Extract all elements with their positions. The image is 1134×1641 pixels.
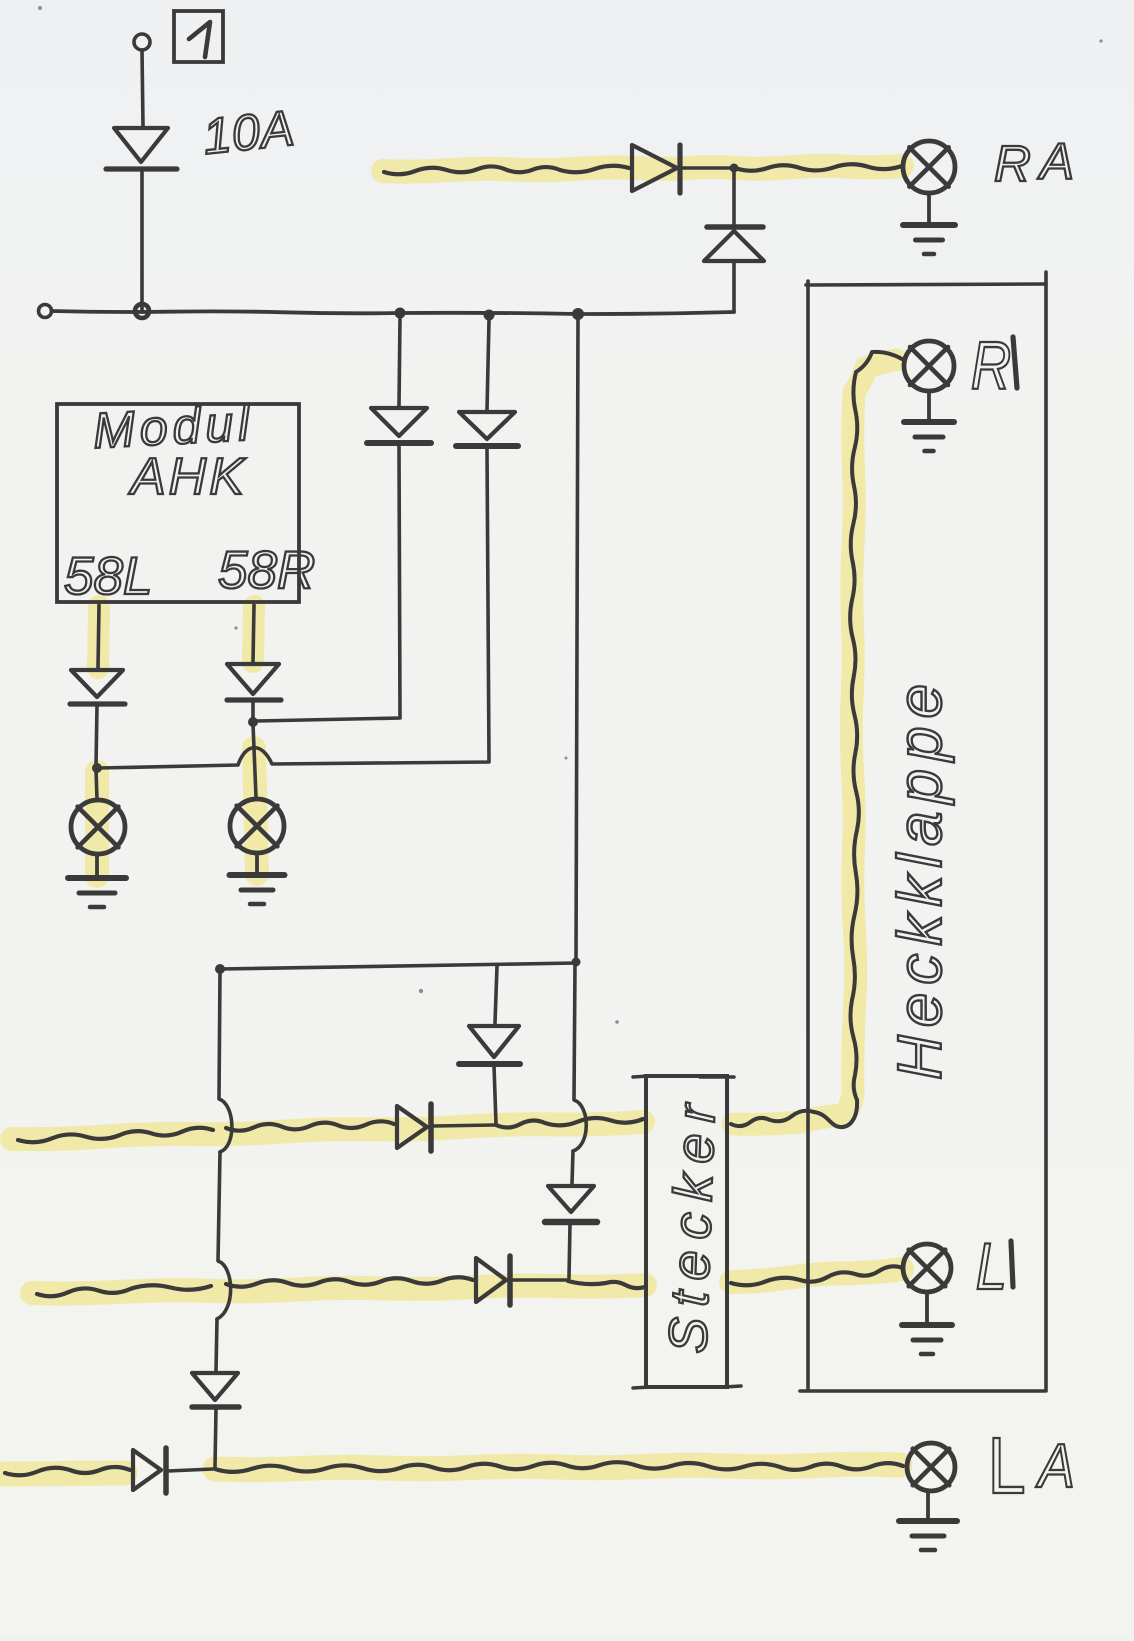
svg-text:10A: 10A	[200, 100, 297, 165]
lamp 58L	[71, 800, 125, 854]
svg-text:A: A	[1036, 1432, 1075, 1501]
svg-text:L: L	[988, 1421, 1026, 1510]
wire D9 to bottom harness	[215, 1409, 216, 1467]
ground below lamp R1	[927, 391, 931, 420]
box Modul AHK	[57, 404, 299, 602]
wire right chain hop over harness 1	[573, 964, 586, 1151]
node junction bus x400	[395, 308, 406, 319]
wire bus to diode D4	[487, 320, 489, 410]
diode D11 pointing down	[548, 1186, 594, 1212]
ground below lamp L1	[925, 1292, 929, 1323]
node junction bus x489	[484, 310, 495, 321]
ground below lamp LA	[926, 1491, 930, 1519]
diode D1 pointing right	[632, 145, 677, 191]
lamp R1	[904, 341, 954, 391]
diode D4 pointing down	[459, 412, 515, 439]
lamp RA	[903, 141, 955, 193]
diode D2 pointing up	[704, 231, 764, 261]
diode D9 pointing down	[192, 1373, 238, 1400]
lamp LA	[907, 1443, 955, 1491]
terminal node 1 (open circle)	[134, 34, 150, 50]
fuse diode F1 10A	[114, 128, 168, 162]
wire D2 to top node	[732, 170, 736, 226]
svg-text:Heckklappe: Heckklappe	[886, 676, 955, 1080]
svg-text:L: L	[976, 1230, 1007, 1303]
wire left chain mid with hop over harness 2	[217, 1152, 231, 1319]
svg-text:58R: 58R	[218, 541, 315, 600]
wire drop to diode D7	[495, 966, 497, 1023]
wire D11 to harness 2	[569, 1224, 570, 1278]
wire harness 2 to Stecker	[568, 1281, 645, 1288]
node junction mid rail right	[572, 958, 581, 967]
node junction bus x578	[572, 308, 584, 320]
bus wire horizontal	[52, 311, 734, 314]
diode D6 pointing down	[227, 664, 279, 694]
wire harness 3 long wavy to lamp LA	[215, 1462, 903, 1472]
wire 58R node down to lamp	[253, 724, 256, 797]
box Stecker	[646, 1076, 727, 1387]
wire from fuse to bus	[140, 170, 144, 311]
wire wavy from bus area to diode D1	[384, 166, 629, 175]
svg-text:R: R	[971, 329, 1011, 404]
paper specks	[38, 6, 1103, 1024]
wire D3 down and left to 58R node	[256, 446, 400, 721]
wire harness 2 left wavy	[37, 1285, 211, 1296]
wire D10 to junction	[512, 1278, 567, 1282]
wire D6 to node	[251, 702, 255, 720]
node junction 58L	[92, 763, 102, 773]
wire D1 to node	[682, 166, 732, 170]
ground below lamp 58L	[95, 855, 99, 876]
diode D7 pointing down	[469, 1026, 519, 1057]
svg-text:58L: 58L	[64, 547, 152, 606]
wire harness 2 mid wavy	[226, 1277, 473, 1286]
ground below lamp RA	[927, 193, 931, 223]
node bus left terminal (open circle)	[39, 305, 52, 318]
wire harness 3 left wavy	[5, 1467, 130, 1475]
svg-text:Stecker: Stecker	[658, 1092, 727, 1354]
diode D12 pointing right	[133, 1450, 161, 1490]
wire D4 down and left with hop to 58L node	[99, 449, 489, 768]
wire right chain to diode D11	[572, 1151, 573, 1184]
svg-text:R: R	[994, 135, 1031, 192]
wire mid rail horizontal	[220, 963, 576, 969]
wire 58L node down to lamp	[96, 770, 97, 799]
lamp L1	[903, 1244, 951, 1292]
diode D10 pointing right	[476, 1258, 506, 1302]
wire 58L pin to diode D5	[98, 605, 99, 668]
wire from terminal 1 to fuse	[142, 50, 143, 126]
wire bus to diode D3	[399, 318, 400, 406]
wire D7 to wavy line	[494, 1066, 496, 1124]
node junction mid rail left	[215, 964, 225, 974]
wire bus x578 down	[576, 319, 578, 961]
wire bus corner up to diode D2	[732, 263, 736, 312]
wire harness 1 left wavy	[18, 1128, 213, 1142]
diode D3 pointing down	[371, 408, 427, 436]
node junction at fuse drop	[135, 304, 149, 318]
wire harness 1 to Stecker	[496, 1118, 643, 1128]
wire wavy from lamp R1 down tailgate harness	[850, 352, 902, 1100]
wire left chain top with hop over harness 1	[219, 971, 232, 1152]
node junction top	[730, 164, 739, 173]
box Heckklappe outline	[806, 281, 810, 1391]
svg-text:A: A	[1037, 133, 1074, 190]
label box 1	[174, 11, 223, 62]
wire 58R pin to diode D6	[253, 605, 254, 662]
lamp 58R	[230, 799, 284, 853]
wire harness 2 right of Stecker to lamp L1	[731, 1266, 903, 1285]
wire harness 1 mid wavy	[226, 1121, 394, 1130]
wire left chain to diode D9	[216, 1319, 217, 1371]
wire wavy node to lamp RA	[735, 164, 902, 171]
diode D5 pointing down	[71, 670, 123, 697]
diode D8 pointing right	[397, 1106, 427, 1148]
wire D12 to junction	[168, 1469, 213, 1471]
wire D5 to node	[96, 706, 97, 766]
svg-text:AHK: AHK	[128, 448, 247, 506]
wire D8 to junction	[433, 1125, 495, 1126]
ground below lamp 58R	[255, 854, 259, 873]
node junction 58R	[248, 717, 258, 727]
